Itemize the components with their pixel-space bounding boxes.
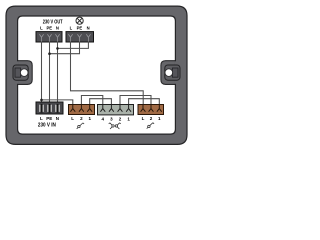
left latch cover plate over wall seam bbox=[15, 61, 18, 84]
svg-text:1: 1 bbox=[158, 116, 161, 121]
svg-text:N: N bbox=[56, 25, 59, 30]
left latch lever bbox=[13, 65, 28, 80]
two-way switch symbol S1 bbox=[77, 123, 84, 129]
terminal block 230V OUT bbox=[36, 32, 62, 42]
svg-text:N: N bbox=[87, 25, 90, 30]
wire PE branch to lamp bbox=[50, 42, 80, 54]
right latch bump bbox=[161, 61, 177, 85]
terminal block 230V IN bbox=[36, 102, 63, 114]
svg-text:L: L bbox=[40, 25, 43, 30]
lamp E1 symbol bbox=[76, 17, 83, 24]
svg-text:L: L bbox=[40, 116, 43, 121]
wire S1.2 to X.4 bbox=[81, 96, 102, 106]
svg-text:N: N bbox=[56, 116, 59, 121]
svg-text:L: L bbox=[70, 25, 73, 30]
svg-text:1: 1 bbox=[88, 116, 91, 121]
intermediate switch symbol X bbox=[109, 123, 121, 129]
wire N branch to lamp bbox=[58, 42, 89, 49]
distribution box frame bbox=[6, 6, 187, 144]
junction dot node PE bbox=[48, 52, 51, 55]
switch connector S1 (brown) bbox=[69, 105, 95, 115]
two-way switch symbol S2 bbox=[147, 123, 154, 129]
svg-text:3: 3 bbox=[110, 116, 113, 121]
junction dot node N bbox=[56, 47, 59, 50]
svg-text:230 V IN: 230 V IN bbox=[38, 122, 56, 128]
svg-text:4: 4 bbox=[102, 116, 105, 121]
junction dot node L bbox=[40, 99, 43, 102]
terminal block lamp output bbox=[66, 32, 94, 42]
svg-text:PE: PE bbox=[46, 116, 52, 121]
svg-text:2: 2 bbox=[150, 116, 153, 121]
right latch lever bbox=[165, 65, 180, 80]
svg-text:PE: PE bbox=[77, 25, 83, 30]
svg-text:PE: PE bbox=[47, 25, 53, 30]
svg-text:L: L bbox=[142, 116, 145, 121]
svg-text:2: 2 bbox=[119, 116, 122, 121]
cross switch connector X (gray) bbox=[98, 105, 134, 115]
svg-text:2: 2 bbox=[80, 116, 83, 121]
wire S1.1 to X.3 bbox=[90, 99, 112, 106]
switch connector S2 (brown) bbox=[138, 105, 164, 115]
wire L feed to switch S1 common bbox=[42, 100, 73, 106]
wire L (OUT riser) bbox=[41, 42, 43, 103]
wire X.1 to S2.1 bbox=[129, 99, 160, 106]
left latch bump bbox=[16, 61, 32, 85]
svg-text:L: L bbox=[71, 116, 74, 121]
wire N (OUT riser) bbox=[57, 42, 59, 103]
right latch cover plate over wall seam bbox=[175, 61, 178, 84]
wire X.2 to S2.2 bbox=[120, 96, 151, 106]
wire lamp L to switch S2 common bbox=[71, 42, 144, 106]
wire PE (OUT riser) bbox=[49, 42, 51, 103]
svg-text:1: 1 bbox=[127, 116, 130, 121]
